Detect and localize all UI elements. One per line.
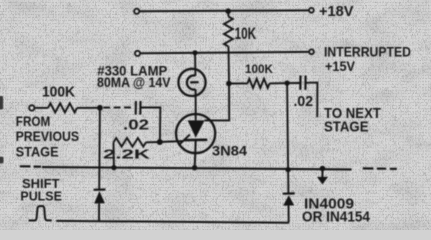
svg-text:.02: .02	[123, 117, 149, 134]
svg-text:100K: 100K	[245, 62, 273, 76]
svg-text:+15V: +15V	[325, 58, 356, 74]
svg-text:PULSE: PULSE	[20, 188, 62, 203]
svg-text:FROM: FROM	[16, 113, 51, 129]
svg-text:PREVIOUS: PREVIOUS	[16, 129, 80, 144]
svg-text:2.2K: 2.2K	[103, 146, 151, 161]
svg-text:10K: 10K	[235, 25, 257, 43]
svg-text:STAGE: STAGE	[16, 145, 59, 160]
svg-text:+18V: +18V	[319, 4, 354, 20]
svg-text:100K: 100K	[42, 84, 76, 100]
svg-text:.02: .02	[294, 93, 314, 110]
svg-text:STAGE: STAGE	[324, 119, 369, 136]
svg-text:3N84: 3N84	[212, 142, 247, 158]
svg-text:80MA @ 14V: 80MA @ 14V	[97, 74, 171, 90]
svg-text:OR IN4154: OR IN4154	[302, 209, 370, 225]
